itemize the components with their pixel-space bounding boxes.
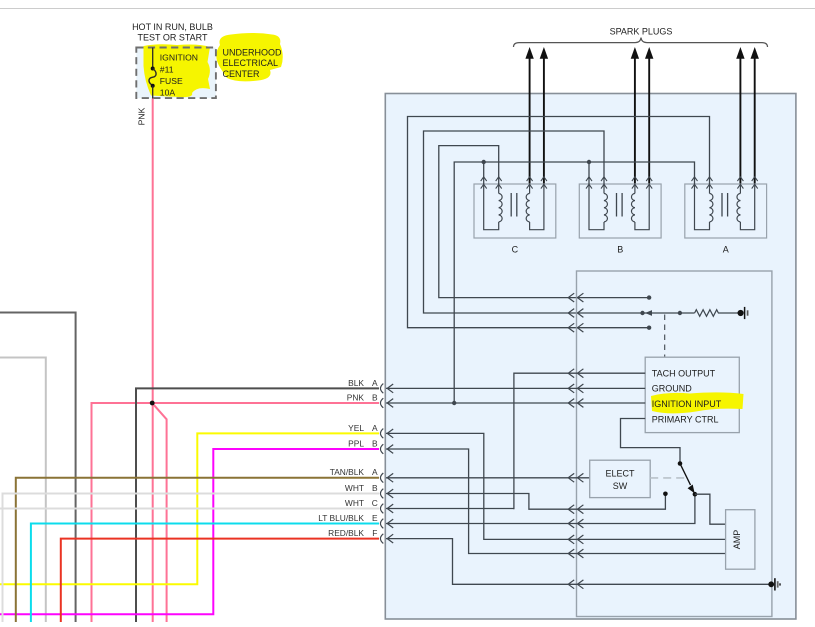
module logic box U1 — [645, 357, 739, 432]
label HOT IN RUN, BULB TEST OR START — [132, 22, 213, 43]
ignition module assembly box — [385, 94, 796, 620]
svg-text:A: A — [372, 378, 378, 388]
highlight blob over IGNITION INPUT — [651, 392, 744, 413]
ignition coil A — [685, 177, 767, 255]
wire PRIMARY CTRL to switch — [621, 419, 681, 463]
switch blade with arrowhead — [680, 464, 691, 486]
svg-text:PPL: PPL — [348, 438, 364, 448]
switch common dot — [678, 461, 683, 466]
connector chevrons at inner module edge — [568, 293, 583, 589]
wire PPL — [0, 449, 379, 614]
svg-text:PNK: PNK — [137, 107, 147, 125]
svg-text:B: B — [617, 245, 623, 255]
wire PNK from fuse to junction and connector B — [92, 99, 380, 623]
wire IGNITION INPUT row (PNK) — [386, 402, 645, 404]
wire: ignition feed bus to coils — [454, 162, 694, 403]
wire WHT C row — [386, 508, 514, 510]
ignition coil B — [579, 177, 661, 255]
page top border line — [0, 8, 815, 10]
svg-text:WHT: WHT — [345, 498, 364, 508]
wire labels at connector — [318, 378, 378, 538]
spark plug wire (coil A) — [739, 57, 741, 184]
junction dot PNK — [150, 401, 155, 406]
node dot row2 left — [640, 311, 644, 315]
svg-text:A: A — [372, 467, 378, 477]
ignition coil C — [474, 177, 556, 255]
highlight blob over UNDERHOOD ELECTRICAL CENTER — [216, 33, 283, 81]
svg-text:B: B — [372, 392, 378, 402]
label UNDERHOOD ELECTRICAL CENTER — [223, 47, 283, 79]
highlight blob over fuse labels — [144, 44, 211, 97]
svg-text:A: A — [723, 245, 729, 255]
wire (gray) to left edge — [0, 313, 76, 623]
wire WHT (C) — [0, 508, 379, 510]
spark plug wire (coil A) — [754, 57, 756, 184]
svg-text:RED/BLK: RED/BLK — [328, 528, 364, 538]
ground (internal, on module case) — [768, 578, 780, 590]
svg-text:A: A — [372, 423, 378, 433]
dashed link ELECT SW to switch blade — [650, 477, 688, 479]
underhood electrical center dashed box — [136, 48, 216, 99]
svg-text:CENTER: CENTER — [223, 69, 261, 79]
wire RED/BLK — [61, 539, 379, 622]
svg-text:YEL: YEL — [348, 423, 364, 433]
current direction arrow row 2 — [645, 310, 652, 316]
svg-text:B: B — [372, 483, 378, 493]
wire TAN/BLK row to ELECT SW — [386, 477, 590, 479]
svg-text:AMP: AMP — [732, 530, 742, 550]
wire: coil B primary to module row 2 — [424, 131, 695, 313]
dashed link row2 to logic box — [664, 315, 666, 357]
svg-text:PRIMARY CTRL: PRIMARY CTRL — [652, 415, 719, 425]
svg-text:HOT IN RUN, BULB: HOT IN RUN, BULB — [132, 22, 213, 32]
svg-text:F: F — [372, 528, 377, 538]
fuse F11 IGNITION 10A — [149, 48, 198, 100]
wire YEL row to AMP — [386, 433, 726, 539]
harness connector symbols at module edge — [380, 384, 393, 544]
wire LT BLU/BLK — [31, 524, 379, 623]
wire WHT B row jog — [386, 494, 665, 510]
svg-text:IGNITION: IGNITION — [160, 53, 198, 63]
spark plug wire (coil B) — [648, 57, 650, 184]
junction dot ignition feed — [452, 401, 456, 405]
spark plug wire (coil C) — [529, 57, 531, 184]
control module inner box — [577, 271, 772, 617]
wire BLK — [136, 388, 379, 622]
svg-text:ELECT: ELECT — [605, 468, 635, 478]
svg-text:#11: #11 — [160, 65, 174, 75]
svg-text:C: C — [372, 498, 378, 508]
wire: coil C primary to module row 1 — [439, 146, 649, 298]
svg-text:TAN/BLK: TAN/BLK — [330, 467, 365, 477]
svg-text:FUSE: FUSE — [160, 76, 183, 86]
node dot row2 mid — [678, 311, 682, 315]
spark plug wire (coil B) — [634, 57, 636, 184]
wire WHT (B) — [3, 494, 380, 623]
svg-text:ELECTRICAL: ELECTRICAL — [223, 58, 279, 68]
svg-text:BLK: BLK — [348, 378, 364, 388]
wire LT BLU/BLK row to switch — [386, 496, 695, 523]
svg-text:UNDERHOOD: UNDERHOOD — [223, 47, 283, 57]
wire switch to AMP — [695, 494, 726, 524]
svg-text:PNK: PNK — [347, 392, 365, 402]
svg-text:GROUND: GROUND — [652, 384, 692, 394]
svg-text:C: C — [512, 245, 519, 255]
resistor (internal) — [695, 310, 741, 317]
wire YEL — [0, 433, 379, 584]
amplifier box AMP — [726, 510, 755, 570]
svg-text:E: E — [372, 513, 378, 523]
svg-text:B: B — [372, 438, 378, 448]
svg-text:IGNITION INPUT: IGNITION INPUT — [652, 399, 722, 409]
wire TAN/BLK — [16, 478, 379, 622]
switch throw contact dot (left) — [663, 492, 668, 497]
wire: coil A primary to module row 3 — [408, 117, 710, 328]
svg-text:LT BLU/BLK: LT BLU/BLK — [318, 513, 364, 523]
brace over spark plugs — [514, 38, 768, 47]
svg-text:10A: 10A — [160, 88, 176, 98]
wire GROUND row (BLK) — [386, 387, 645, 389]
svg-text:TACH OUTPUT: TACH OUTPUT — [652, 368, 716, 378]
wire (light gray) to left edge — [0, 358, 46, 623]
elect sw box — [590, 460, 651, 497]
wire branch to coil B pin 1 — [588, 162, 590, 184]
internal terminal (dot + bars) — [738, 310, 744, 316]
switch contact dot (right) — [693, 492, 698, 497]
svg-text:SPARK PLUGS: SPARK PLUGS — [610, 27, 673, 37]
svg-text:SW: SW — [613, 481, 628, 491]
wire branch to coil C pin 1 — [483, 162, 485, 184]
svg-text:WHT: WHT — [345, 483, 364, 493]
wire PPL row to AMP — [386, 449, 726, 554]
spark plug wire (coil C) — [543, 57, 545, 184]
wire RED/BLK row to internal ground — [386, 539, 771, 585]
svg-text:TEST OR START: TEST OR START — [137, 33, 208, 43]
wire TACH OUTPUT to WHT C — [514, 373, 645, 509]
